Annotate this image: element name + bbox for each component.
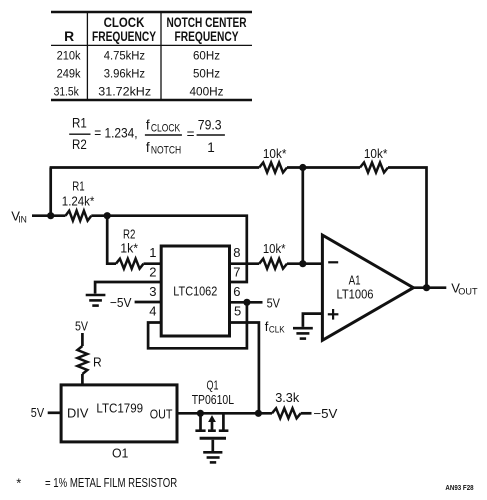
svg-text:R2: R2: [123, 227, 135, 242]
svg-text:LTC1062: LTC1062: [173, 284, 217, 299]
wire R2 to pin 1: [144, 262, 162, 265]
svg-text:OUT: OUT: [150, 406, 173, 421]
table data text: [54, 49, 224, 99]
wire -5V to pin 3: [135, 301, 162, 304]
junction dot at VIN node: [47, 212, 54, 219]
wire pin 2 to ground: [95, 282, 161, 294]
node 5V label (pin 6): [267, 296, 281, 311]
resistor R (vertical): [77, 346, 101, 374]
svg-text:8: 8: [233, 245, 240, 260]
svg-text:3: 3: [149, 284, 156, 299]
svg-text:R: R: [93, 355, 102, 370]
svg-text:5V: 5V: [75, 319, 88, 334]
svg-text:4.75kHz: 4.75kHz: [104, 49, 145, 63]
wire pin4-pin6 wrap: [148, 302, 247, 348]
node 5V label (top of R): [75, 319, 88, 334]
svg-text:NOTCH CENTER: NOTCH CENTER: [167, 15, 247, 30]
junction dot output: [423, 284, 430, 291]
svg-text:1: 1: [207, 140, 215, 155]
IC O1 designator: [112, 446, 128, 461]
ground at op-amp plus input: [293, 328, 313, 338]
svg-text:= 1% METAL FILM RESISTOR: = 1% METAL FILM RESISTOR: [45, 475, 177, 490]
pin 8 label: [233, 245, 240, 260]
svg-text:R: R: [64, 29, 74, 44]
pin 4 label: [149, 304, 156, 319]
pin 7 label: [233, 264, 240, 279]
figure number: [445, 483, 473, 492]
junction dot inverting node: [299, 260, 306, 267]
svg-text:CLOCK: CLOCK: [104, 15, 145, 30]
svg-text:249k: 249k: [57, 67, 82, 81]
junction dot on top rail: [299, 164, 306, 171]
svg-text:−5V: −5V: [110, 295, 132, 310]
svg-text:5V: 5V: [31, 405, 45, 420]
pin 3 label: [149, 284, 156, 299]
op-amp A1 LT1006: [322, 235, 413, 340]
svg-text:FREQUENCY: FREQUENCY: [92, 29, 156, 44]
svg-text:Q1: Q1: [207, 378, 219, 393]
svg-text:6: 6: [233, 284, 240, 299]
wire top rail right segment and feedback drop to output: [388, 168, 427, 288]
svg-text:f: f: [146, 140, 150, 155]
svg-text:*: *: [16, 475, 21, 490]
svg-text:R1: R1: [72, 178, 84, 193]
pin 5 label: [234, 304, 241, 319]
svg-text:=: =: [187, 126, 195, 141]
node 5V label (DIV input): [31, 405, 45, 420]
node -5V label (3.3k): [313, 406, 337, 421]
wire top rail left segment: [50, 166, 260, 169]
svg-text:LTC1799: LTC1799: [96, 400, 143, 415]
svg-text:5: 5: [234, 304, 241, 319]
svg-text:10k*: 10k*: [263, 146, 287, 161]
plus input symbol: [328, 309, 339, 320]
svg-text:5V: 5V: [267, 296, 281, 311]
svg-text:50Hz: 50Hz: [193, 67, 220, 81]
wire resistor R to LTC1799: [81, 374, 84, 385]
svg-text:7: 7: [233, 264, 240, 279]
svg-text:10k*: 10k*: [263, 241, 286, 256]
svg-text:NOTCH: NOTCH: [151, 145, 181, 157]
table frame: [51, 12, 252, 100]
resistor 10k (rail first): [259, 146, 287, 173]
resistor R2 1k: [116, 227, 144, 269]
pin 1 label: [149, 245, 156, 260]
svg-text:1k*: 1k*: [120, 240, 138, 255]
node fCLK label: [265, 319, 285, 336]
ground at Q1 gate: [203, 452, 222, 462]
svg-text:2: 2: [149, 264, 156, 279]
wire plus input to ground: [303, 314, 323, 327]
svg-text:210k: 210k: [57, 49, 82, 63]
wire 5V to resistor R: [81, 333, 84, 346]
svg-text:LT1006: LT1006: [337, 287, 374, 302]
resistor 3.3k: [272, 390, 301, 418]
ground at pin 2: [86, 295, 106, 306]
minus input symbol: [328, 261, 338, 263]
wire OUT to 3.3k: [177, 412, 272, 415]
table header text: [64, 15, 246, 44]
svg-text:f: f: [146, 118, 150, 133]
wire R2 branch vertical: [107, 216, 116, 264]
IC O1 LTC1799 box: [61, 385, 177, 442]
node VOUT label: [451, 281, 477, 298]
transistor Q1 TP0610L: [192, 378, 234, 452]
svg-text:1.24k*: 1.24k*: [62, 194, 95, 209]
svg-text:A1: A1: [349, 272, 361, 287]
pin 2 label: [149, 264, 156, 279]
IC U-LTC1062 box: [161, 246, 229, 336]
svg-text:3.3k: 3.3k: [275, 390, 299, 405]
svg-text:1: 1: [149, 245, 156, 260]
junction dot R1/R2 node: [104, 212, 111, 219]
svg-text:4: 4: [149, 304, 156, 319]
footnote: [16, 475, 177, 490]
node VIN label: [11, 208, 27, 225]
svg-text:79.3: 79.3: [198, 118, 222, 133]
wire 3.3k to -5V: [301, 412, 312, 415]
svg-text:−5V: −5V: [313, 406, 337, 421]
junction dot at Q1 source: [197, 410, 204, 417]
svg-text:400Hz: 400Hz: [190, 85, 224, 99]
resistor R1 1.24k: [62, 178, 95, 220]
junction dot at fclk node: [255, 410, 262, 417]
wire left vertical from VIN node to top rail: [49, 168, 52, 216]
wire 5V to DIV: [48, 411, 61, 414]
svg-text:CLK: CLK: [269, 325, 285, 336]
svg-text:FREQUENCY: FREQUENCY: [175, 29, 239, 44]
resistor 10k (rail second / feedback): [360, 146, 388, 173]
junction dot pin6/5V: [243, 299, 250, 306]
svg-text:AN93 F28: AN93 F28: [445, 483, 473, 492]
svg-text:R1: R1: [72, 116, 87, 131]
wire top rail middle segment: [287, 166, 360, 169]
svg-text:= 1.234,: = 1.234,: [94, 125, 137, 140]
wire output to VOUT: [413, 286, 446, 289]
node -5V label (pin 3): [110, 295, 132, 310]
wire pin 8 to resistor: [230, 262, 260, 265]
wire rail junction down to inverting node: [301, 168, 304, 264]
wire pin 5 to fclk drop: [230, 323, 259, 414]
svg-text:R2: R2: [72, 137, 87, 152]
svg-text:TP0610L: TP0610L: [192, 392, 234, 407]
svg-text:31.72kHz: 31.72kHz: [98, 85, 151, 99]
formula fclock/fnotch = 79.3/1: [145, 118, 225, 157]
wire R1 to pin7 corner: [91, 216, 247, 282]
svg-text:31.5k: 31.5k: [54, 85, 80, 99]
svg-text:DIV: DIV: [67, 406, 89, 421]
svg-text:3.96kHz: 3.96kHz: [104, 67, 145, 81]
pin 6 label: [233, 284, 240, 299]
svg-text:O1: O1: [112, 446, 128, 461]
svg-text:CLOCK: CLOCK: [151, 123, 181, 135]
formula R1/R2 = 1.234: [69, 116, 137, 152]
svg-text:OUT: OUT: [458, 287, 477, 298]
wire pin 6 to 5V: [230, 301, 263, 304]
wire VIN input: [32, 214, 66, 217]
svg-text:10k*: 10k*: [364, 146, 388, 161]
wire resistor to inverting node: [287, 262, 322, 265]
resistor 10k (pin 8): [259, 241, 287, 269]
svg-text:60Hz: 60Hz: [193, 49, 220, 63]
svg-text:IN: IN: [18, 215, 27, 226]
